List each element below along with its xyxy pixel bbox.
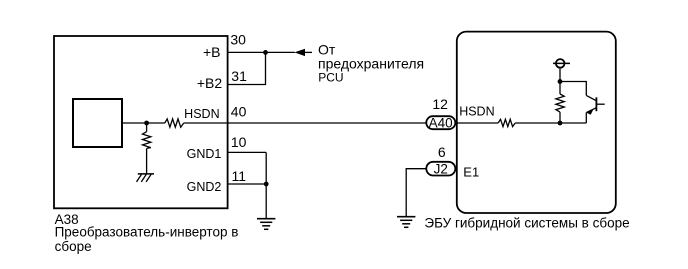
svg-text:A40: A40 xyxy=(429,115,453,130)
transistor Q (NPN) xyxy=(586,95,596,100)
svg-text:+B: +B xyxy=(203,44,221,60)
node junction GND1/GND2 xyxy=(264,182,269,187)
wire xyxy=(184,122,426,124)
svg-text:6: 6 xyxy=(438,144,446,160)
svg-text:+B2: +B2 xyxy=(197,75,223,91)
ground (earth) at GND xyxy=(257,218,275,220)
svg-text:HSDN: HSDN xyxy=(184,107,219,121)
wire GND2 pin 11 xyxy=(228,183,267,185)
svg-text:HSDN: HSDN xyxy=(459,104,494,118)
svg-text:30: 30 xyxy=(230,31,246,47)
internal block (square) of A38 xyxy=(73,99,122,147)
component box A38 xyxy=(54,36,228,208)
svg-text:11: 11 xyxy=(232,168,247,184)
resistor ECU (series) xyxy=(498,119,515,126)
wire +B2 pin 31 xyxy=(228,52,266,84)
terminal circle (power) xyxy=(556,59,565,68)
svg-text:предохранителя: предохранителя xyxy=(318,55,424,71)
svg-text:GND2: GND2 xyxy=(187,180,222,194)
resistor ECU (pull-up) xyxy=(559,112,561,123)
svg-text:Преобразователь-инвертор в: Преобразователь-инвертор в xyxy=(55,225,239,240)
wire E1 to ground xyxy=(406,169,425,217)
svg-text:J2: J2 xyxy=(434,162,448,177)
arrow to PCU fuse xyxy=(294,49,305,56)
connector J2 pin 6 xyxy=(426,162,455,176)
svg-text:40: 40 xyxy=(231,103,247,119)
resistor internal (series) xyxy=(165,119,184,127)
resistor internal (to chassis ground) xyxy=(146,123,148,132)
svg-text:сборе: сборе xyxy=(55,239,92,254)
svg-text:GND1: GND1 xyxy=(187,147,222,161)
ground (earth) at E1 xyxy=(397,216,415,218)
wire xyxy=(515,122,586,124)
node junction at internal resistor xyxy=(144,121,149,126)
svg-text:PCU: PCU xyxy=(318,71,343,85)
svg-text:31: 31 xyxy=(231,68,247,84)
chassis ground xyxy=(138,173,154,175)
connector A40 pin 12 xyxy=(426,116,455,129)
wire to ground xyxy=(265,152,267,218)
wire HSDN inside ECU xyxy=(457,122,498,124)
wire +B pin 30 xyxy=(228,51,295,53)
wire HSDN from internal block to connector A40 xyxy=(122,122,165,124)
svg-text:10: 10 xyxy=(231,134,247,150)
svg-text:E1: E1 xyxy=(463,164,479,179)
wire collector branch xyxy=(560,82,586,96)
node junction at terminal xyxy=(558,79,563,84)
node junction +B/+B2 xyxy=(263,50,268,55)
svg-text:12: 12 xyxy=(432,96,448,112)
component box ECU (hybrid system) xyxy=(457,32,616,213)
node junction at pull-up resistor xyxy=(558,121,563,126)
wire emitter branch xyxy=(585,112,587,123)
svg-text:ЭБУ гибридной системы в сборе: ЭБУ гибридной системы в сборе xyxy=(424,216,629,231)
wire to terminal circle xyxy=(559,69,561,82)
wire GND1 pin 10 xyxy=(228,151,267,153)
